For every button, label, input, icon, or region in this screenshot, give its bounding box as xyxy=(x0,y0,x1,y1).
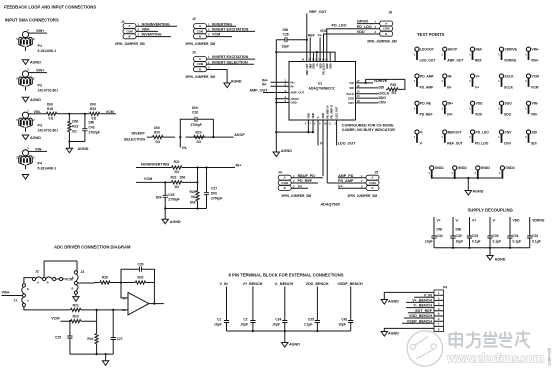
svg-text:GND: GND xyxy=(307,113,311,119)
svg-text:NONINVERTING: NONINVERTING xyxy=(141,162,169,166)
svg-text:C25: C25 xyxy=(168,193,174,197)
wire stub pin22 xyxy=(313,52,315,61)
svg-text:SDI: SDI xyxy=(531,141,537,145)
svg-text:A: A xyxy=(72,275,74,279)
svg-text:VCM: VCM xyxy=(144,177,152,181)
J4 pin 2 net PD_REF xyxy=(291,179,318,183)
wire bottom rail of C25/R24/C27 xyxy=(164,207,206,209)
svg-text:LDO_OUT: LDO_OUT xyxy=(420,59,436,63)
wire GND top rail xyxy=(276,52,335,61)
svg-text:R33: R33 xyxy=(90,107,96,111)
svg-text:10µF: 10µF xyxy=(338,322,346,326)
svg-text:V+: V+ xyxy=(475,85,479,89)
net SDO from pin14 xyxy=(356,96,387,100)
node dots on IN+ wire xyxy=(96,309,98,311)
net IN- into U1 pin2 xyxy=(262,82,289,86)
J5 pin 3 net V+ xyxy=(338,184,366,188)
svg-text:R23: R23 xyxy=(196,130,202,134)
connector P1 xyxy=(16,28,56,53)
svg-text:VSDP_BENCH: VSDP_BENCH xyxy=(407,319,433,323)
svg-text:0Ω: 0Ω xyxy=(72,129,77,133)
svg-text:C26: C26 xyxy=(192,111,198,115)
svg-text:AGND: AGND xyxy=(473,190,484,194)
J5 pin 2 wire PD_AMP xyxy=(327,179,366,183)
connector P3 xyxy=(16,109,58,133)
svg-text:C31: C31 xyxy=(513,234,519,238)
svg-text:CNV: CNV xyxy=(504,141,512,145)
svg-text:C28: C28 xyxy=(283,32,289,36)
svg-text:www.elecfans.com: www.elecfans.com xyxy=(446,352,544,366)
resistor R25 (SDI pullup to VDRIVE) xyxy=(366,79,405,95)
svg-text:EXT_REF: EXT_REF xyxy=(415,309,432,313)
J3 pin 2 net INVERT SELECTION xyxy=(207,60,255,64)
svg-text:5-1814400-1: 5-1814400-1 xyxy=(38,167,57,171)
svg-text:VIN+: VIN+ xyxy=(2,291,10,295)
svg-text:ADCP: ADCP xyxy=(448,48,458,52)
svg-text:15: 15 xyxy=(357,90,361,94)
resistor R23 (feedback) xyxy=(194,130,204,144)
net AMP_OUT into U1 pin3 xyxy=(250,89,290,93)
U1 left pin numbers xyxy=(284,79,286,103)
svg-text:VDD: VDD xyxy=(476,102,484,106)
svg-text:C27: C27 xyxy=(117,337,123,341)
svg-text:DNI: DNI xyxy=(180,176,186,180)
wire top rail J1-J2-J3 xyxy=(24,261,77,284)
svg-text:16: 16 xyxy=(357,84,361,88)
svg-text:IN+: IN+ xyxy=(447,113,452,117)
svg-text:C34: C34 xyxy=(275,318,281,322)
wire bottom of R19/C43 xyxy=(69,141,85,143)
svg-text:B: B xyxy=(72,287,74,291)
test point LDOOUT xyxy=(414,47,436,62)
wire V+ stub xyxy=(318,34,322,62)
test point CNV xyxy=(498,130,512,145)
net NONINVERTING xyxy=(136,162,235,167)
ground AGND below C25 xyxy=(162,209,181,225)
svg-text:R23: R23 xyxy=(137,276,143,280)
jumper J4 xyxy=(278,171,311,198)
J1 pin 3 net INVERTING xyxy=(136,33,171,37)
capacitor C26 (feedback) xyxy=(180,106,213,137)
capacitor C27 (driver diagram) xyxy=(111,310,123,354)
test point VIN+ xyxy=(525,47,539,62)
svg-text:DNI: DNI xyxy=(437,228,443,232)
svg-text:INVERTING: INVERTING xyxy=(212,22,232,26)
test point GND2 xyxy=(451,166,467,179)
svg-text:C29: C29 xyxy=(472,234,478,238)
svg-text:PD_RE: PD_RE xyxy=(420,102,432,106)
svg-text:V+: V+ xyxy=(472,219,476,223)
ground AGND supply bus xyxy=(487,256,506,262)
svg-text:13: 13 xyxy=(357,99,361,103)
test point SDO xyxy=(498,101,512,116)
svg-text:AGND: AGND xyxy=(30,98,41,102)
svg-text:J2: J2 xyxy=(192,17,196,21)
svg-text:SCLK: SCLK xyxy=(379,92,389,96)
svg-text:PD_AMP: PD_AMP xyxy=(338,179,354,183)
net IN+ into U1 pin1 xyxy=(262,78,289,82)
test point REF xyxy=(469,47,482,62)
svg-text:VIN+: VIN+ xyxy=(36,69,44,73)
wire J1 bottom to IN+ xyxy=(24,307,128,310)
svg-text:V_IN: V_IN xyxy=(220,282,229,286)
svg-text:PD_AMP_N: PD_AMP_N xyxy=(330,105,334,118)
svg-text:AGND: AGND xyxy=(289,343,300,347)
svg-text:ADAQ798X: ADAQ798X xyxy=(321,203,341,207)
svg-text:V-: V- xyxy=(316,116,320,118)
svg-text:AMP_OUT: AMP_OUT xyxy=(447,59,463,63)
capacitor C35 (VDD_BENCH) xyxy=(304,282,329,331)
svg-text:10µF: 10µF xyxy=(425,240,433,244)
svg-text:VCM: VCM xyxy=(106,110,114,114)
svg-text:P1: P1 xyxy=(38,44,43,48)
svg-text:GND2: GND2 xyxy=(458,166,467,170)
svg-text:SCLK: SCLK xyxy=(346,92,354,96)
svg-text:R20: R20 xyxy=(102,276,108,280)
svg-text:IN-: IN- xyxy=(262,82,268,86)
svg-text:V_IN: V_IN xyxy=(424,293,433,297)
U1 bottom rotated pin names xyxy=(307,105,339,118)
J2 pin 2 net INVERT EXCITATION xyxy=(207,28,256,32)
test point PD_LDO xyxy=(469,130,489,145)
svg-text:R25: R25 xyxy=(390,83,396,87)
net INVERT SELECTION xyxy=(124,132,214,142)
net VIN- at P3 xyxy=(32,110,43,114)
svg-text:R22: R22 xyxy=(73,315,79,319)
svg-text:R22: R22 xyxy=(170,176,176,180)
net V_IN to P4 pin2 xyxy=(414,293,434,297)
svg-text:V+: V+ xyxy=(437,219,441,223)
svg-text:0Ω: 0Ω xyxy=(392,91,397,95)
svg-text:Ω: Ω xyxy=(51,117,54,121)
svg-text:J1: J1 xyxy=(121,20,125,24)
net V+_BENCH to P4 pin3 xyxy=(406,299,434,303)
svg-text:C2: C2 xyxy=(243,318,247,322)
svg-text:VIN+: VIN+ xyxy=(532,48,539,52)
svg-text:0Ω: 0Ω xyxy=(156,140,161,144)
svg-text:R21: R21 xyxy=(73,303,79,307)
VIN- filter: wire xyxy=(42,113,104,115)
svg-text:A: A xyxy=(27,299,29,303)
svg-text:14: 14 xyxy=(357,94,361,98)
svg-text:CONFIGURED FOR CS MODE: CONFIGURED FOR CS MODE xyxy=(342,123,394,127)
test point VCM xyxy=(525,74,539,89)
svg-text:2700pF: 2700pF xyxy=(168,198,179,202)
node junction dots on VIN- wire xyxy=(68,113,70,115)
ground AGND below rail xyxy=(273,149,292,156)
svg-text:GND3: GND3 xyxy=(481,166,490,170)
ground AGND of GND bus xyxy=(465,190,484,196)
capacitor C1 (V_IN) xyxy=(214,282,229,331)
svg-text:INVERT SELECTION: INVERT SELECTION xyxy=(212,60,248,64)
capacitor C2 (V+_BENCH) xyxy=(240,282,262,331)
svg-text:SELECTION: SELECTION xyxy=(124,138,145,142)
svg-text:J1: J1 xyxy=(14,299,18,303)
J1 pin 2 net VIN+ xyxy=(136,28,158,32)
svg-text:SDO: SDO xyxy=(505,102,513,106)
svg-text:VDD: VDD xyxy=(513,219,521,223)
svg-text:SCLK: SCLK xyxy=(505,74,515,78)
svg-text:C27: C27 xyxy=(211,186,217,190)
wire GND bus xyxy=(432,177,503,191)
svg-text:GND: GND xyxy=(311,113,315,119)
svg-text:INVERT: INVERT xyxy=(131,132,145,136)
svg-text:GND: GND xyxy=(291,101,297,105)
node ADCP xyxy=(212,133,245,138)
resistor R20 (driver diagram) xyxy=(100,276,110,284)
jumper J1 xyxy=(115,20,145,46)
svg-text:P3: P3 xyxy=(38,124,43,128)
capacitor C42 (VSDP_BENCH) xyxy=(338,282,364,331)
U1 bottom pin numbers xyxy=(305,124,338,126)
svg-text:R19: R19 xyxy=(72,124,78,128)
net V-_BENCH to P4 pin4 xyxy=(406,304,434,308)
svg-text:VIO: VIO xyxy=(349,81,355,85)
jumper J6 xyxy=(367,11,397,44)
svg-text:J3: J3 xyxy=(192,50,196,54)
svg-text:V+_BENCH: V+_BENCH xyxy=(412,299,432,303)
svg-text:10µF: 10µF xyxy=(282,44,290,48)
net VCM lower xyxy=(51,317,96,323)
svg-text:VDRIVE: VDRIVE xyxy=(504,59,517,63)
svg-text:R21: R21 xyxy=(174,160,180,164)
svg-text:J5: J5 xyxy=(375,171,379,175)
svg-text:ADAQ7980BCCZ: ADAQ7980BCCZ xyxy=(309,87,335,91)
svg-text:2700pF: 2700pF xyxy=(191,123,202,127)
test point GND3 xyxy=(474,166,490,179)
svg-text:IN+: IN+ xyxy=(448,102,453,106)
svg-text:PD_LDO: PD_LDO xyxy=(475,141,489,145)
U1 top pin numbers xyxy=(302,59,329,62)
svg-text:ADC DRIVER CONNECTION DIAGRAM: ADC DRIVER CONNECTION DIAGRAM xyxy=(54,245,131,250)
net VDRIVE from pin17 xyxy=(356,79,388,84)
svg-text:VCM: VCM xyxy=(532,74,540,78)
svg-text:R24: R24 xyxy=(87,337,93,341)
resistor R20 xyxy=(153,126,163,144)
test point VIN- xyxy=(525,101,538,116)
svg-text:B: B xyxy=(27,287,29,291)
AGND vertical rail left of U1 xyxy=(275,40,277,152)
svg-text:V-: V- xyxy=(420,141,423,145)
net LDO_OUT stub xyxy=(337,120,357,146)
svg-text:10µF: 10µF xyxy=(240,322,248,326)
svg-text:PD_LDO: PD_LDO xyxy=(332,24,347,28)
svg-text:142-0701-801: 142-0701-801 xyxy=(38,129,59,133)
svg-text:C42: C42 xyxy=(341,318,347,322)
svg-text:AGND: AGND xyxy=(388,332,399,336)
svg-text:CNV: CNV xyxy=(505,130,513,134)
svg-text:VCM: VCM xyxy=(212,33,220,37)
svg-text:VDRIVE: VDRIVE xyxy=(505,48,518,52)
svg-text:P2: P2 xyxy=(38,84,43,88)
test point GND1 xyxy=(428,166,444,179)
jumper J2 (coil symbol) xyxy=(32,269,55,284)
wire PD_REF_N stub down to J4 xyxy=(322,120,324,176)
resistor R24 (driver diagram) xyxy=(87,310,98,354)
svg-text:C44: C44 xyxy=(437,234,443,238)
svg-text:3PIN_JUMPER_SM: 3PIN_JUMPER_SM xyxy=(186,42,216,46)
svg-text:INVERTING: INVERTING xyxy=(142,33,162,37)
svg-text:NONINVERTING: NONINVERTING xyxy=(142,22,170,26)
svg-text:INVERT EXCITATION: INVERT EXCITATION xyxy=(212,55,249,59)
resistor R21 (driver diagram) xyxy=(71,303,81,311)
svg-text:V-_BENCH: V-_BENCH xyxy=(413,304,432,308)
wire ADCN pin4 to AGND rail xyxy=(275,98,289,100)
svg-text:C30: C30 xyxy=(493,234,499,238)
capacitor C29 xyxy=(467,217,481,248)
svg-text:SDO: SDO xyxy=(504,113,512,117)
svg-text:REF: REF xyxy=(308,34,315,38)
svg-text:R18: R18 xyxy=(47,107,53,111)
svg-text:C25: C25 xyxy=(55,336,61,340)
wire P4 pin1 to AGND xyxy=(381,292,434,304)
ground AGND at J3 pin 3 xyxy=(224,80,242,88)
node IN- junction xyxy=(110,281,122,283)
svg-text:V+: V+ xyxy=(318,34,322,38)
svg-text:GPIO0: GPIO0 xyxy=(357,20,368,24)
net CNV from pin13 xyxy=(356,101,387,105)
svg-text:GND: GND xyxy=(328,63,332,69)
test point GND4 xyxy=(499,166,515,179)
test point IN+ xyxy=(441,101,453,116)
svg-text:C45: C45 xyxy=(456,234,462,238)
svg-text:3-WIRE; NO BUSY INDICATOR: 3-WIRE; NO BUSY INDICATOR xyxy=(342,128,395,132)
svg-text:C1: C1 xyxy=(217,318,221,322)
svg-text:J4: J4 xyxy=(278,171,282,175)
svg-text:142-0701-801: 142-0701-801 xyxy=(38,89,59,93)
wire J2 right to VCM xyxy=(56,277,73,281)
test point VDD xyxy=(469,101,483,116)
net VIN+ input xyxy=(2,291,22,296)
svg-text:DNI: DNI xyxy=(90,103,96,107)
U1 right pins xyxy=(346,81,354,105)
svg-text:AGND: AGND xyxy=(495,257,506,261)
svg-text:CNV: CNV xyxy=(348,101,354,105)
capacitor C30 xyxy=(487,217,501,248)
resistor R19 (vertical) xyxy=(68,114,79,142)
connector P4 (terminal block) xyxy=(434,285,447,331)
J4 pin 3 net V+ xyxy=(291,184,308,188)
svg-text:REF: REF xyxy=(475,59,482,63)
svg-text:DNI: DNI xyxy=(283,28,289,32)
svg-text:PD_AMP: PD_AMP xyxy=(420,74,435,78)
svg-text:VDD_BENCH: VDD_BENCH xyxy=(306,282,329,286)
svg-text:VIN-: VIN- xyxy=(34,110,42,114)
svg-text:5-1814400-1: 5-1814400-1 xyxy=(38,49,57,53)
svg-text:INVERT EXCITATION: INVERT EXCITATION xyxy=(212,28,249,32)
net SCLK from pin15 xyxy=(356,92,390,96)
J4 pin 1 wire RBUF_PD xyxy=(291,174,323,178)
svg-text:C43: C43 xyxy=(89,126,95,130)
jumper J5 xyxy=(348,171,380,198)
net VIN+ at P2 xyxy=(32,69,48,73)
svg-text:AGND: AGND xyxy=(30,61,41,65)
svg-text:REFOUT: REFOUT xyxy=(448,130,462,134)
svg-text:3PIN_JUMPER_SM: 3PIN_JUMPER_SM xyxy=(115,42,145,46)
resistor R23 (driver diagram) xyxy=(121,276,155,284)
svg-text:SDI: SDI xyxy=(532,130,538,134)
svg-text:0.1µF: 0.1µF xyxy=(493,240,502,244)
capacitor C34 (V-_BENCH) xyxy=(272,282,293,331)
svg-text:0Ω: 0Ω xyxy=(191,195,196,199)
capacitor C44 xyxy=(425,217,443,248)
wire REF stub xyxy=(308,34,315,62)
svg-text:VIN+: VIN+ xyxy=(36,29,44,33)
svg-text:REF: REF xyxy=(476,48,483,52)
svg-text:AMP_OUT: AMP_OUT xyxy=(250,89,269,93)
svg-text:VDD: VDD xyxy=(357,30,365,34)
svg-text:ADCP: ADCP xyxy=(234,133,245,137)
svg-text:3PIN_JUMPER_SM: 3PIN_JUMPER_SM xyxy=(186,75,216,79)
resistor R22 xyxy=(170,176,185,189)
wire P4 pin8 to AGND xyxy=(381,328,434,336)
resistor R21 xyxy=(172,160,182,174)
svg-text:C32: C32 xyxy=(532,234,538,238)
resistor R24 (vertical) xyxy=(189,166,199,208)
capacitor C28 xyxy=(276,28,308,49)
test point PD_AMP xyxy=(414,74,435,89)
svg-text:SDI: SDI xyxy=(378,86,384,90)
capacitor C45 xyxy=(450,217,463,248)
svg-text:V-_BENCH: V-_BENCH xyxy=(275,282,294,286)
test point PD_REF xyxy=(414,101,433,116)
watermark logo xyxy=(407,331,442,366)
J1 pin 1 net NONINVERTING xyxy=(136,22,177,26)
wire PD_AMP_N stub down to J5 xyxy=(326,120,328,181)
svg-text:VIN-: VIN- xyxy=(531,113,538,117)
section titles xyxy=(4,5,96,23)
svg-text:PD_LDO: PD_LDO xyxy=(476,130,490,134)
jumper J1 (coil symbol) xyxy=(14,284,29,307)
svg-text:REF_OUT: REF_OUT xyxy=(309,10,327,14)
ground below P4 xyxy=(22,175,28,180)
svg-text:CNV: CNV xyxy=(378,101,386,105)
svg-text:SCLK: SCLK xyxy=(504,85,514,89)
net VDD_BENCH to P4 pin6 xyxy=(404,314,434,318)
wire GND stub pin18 xyxy=(329,52,331,61)
svg-text:3PIN_JUMPER_SM: 3PIN_JUMPER_SM xyxy=(282,194,312,198)
svg-text:IN-: IN- xyxy=(291,84,295,88)
svg-text:IN-: IN- xyxy=(447,85,451,89)
test point IN- xyxy=(441,74,452,89)
svg-text:RBUF_PD: RBUF_PD xyxy=(298,174,316,178)
svg-text:0Ω: 0Ω xyxy=(197,140,202,144)
capacitor C25 (driver diagram) xyxy=(55,321,73,354)
svg-text:AGND: AGND xyxy=(388,300,399,304)
svg-text:U1: U1 xyxy=(318,82,322,86)
svg-text:IN-: IN- xyxy=(182,146,188,150)
svg-text:PD_LDO: PD_LDO xyxy=(357,25,372,29)
ground below driver rail xyxy=(102,354,108,365)
svg-text:10µF: 10µF xyxy=(214,322,222,326)
wire GND stub pin21 xyxy=(316,51,318,62)
resistor R22 (driver diagram) xyxy=(71,315,81,323)
net VSDP_BENCH to P4 pin7 xyxy=(402,319,434,323)
wire GND stubs to AGND rail below U1 xyxy=(275,120,314,133)
svg-text:VDD: VDD xyxy=(320,29,328,33)
svg-text:V-: V- xyxy=(456,219,459,223)
svg-text:VCM: VCM xyxy=(51,317,59,321)
svg-text:VDRIVE: VDRIVE xyxy=(532,219,545,223)
svg-text:J6: J6 xyxy=(389,11,393,15)
svg-text:AGND: AGND xyxy=(231,80,242,84)
node IN- xyxy=(179,136,188,150)
svg-text:LDO_OUT: LDO_OUT xyxy=(338,142,356,146)
svg-text:J3: J3 xyxy=(81,270,85,274)
svg-text:DNI: DNI xyxy=(456,228,462,232)
svg-text:0Ω: 0Ω xyxy=(174,170,179,174)
svg-text:DNI: DNI xyxy=(192,106,198,110)
